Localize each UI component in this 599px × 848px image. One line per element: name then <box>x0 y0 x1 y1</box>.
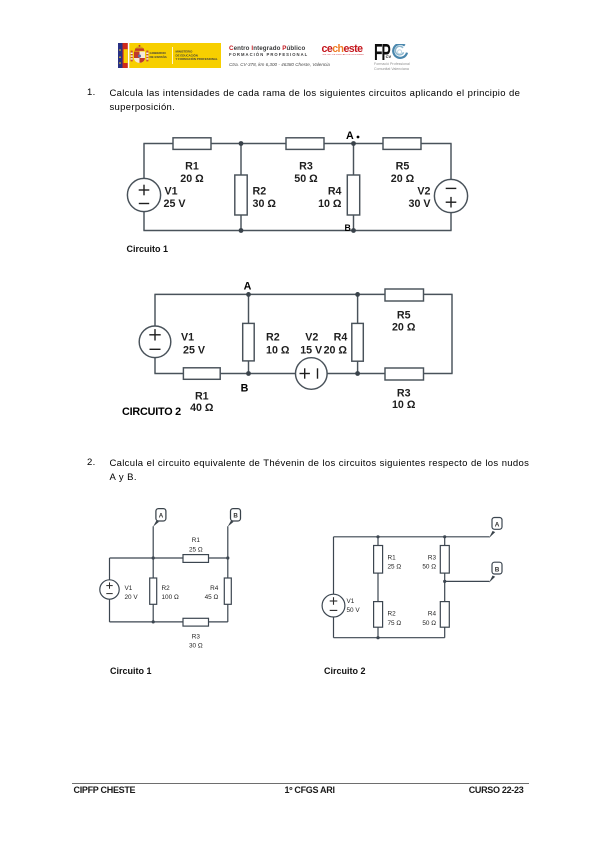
svg-text:R1: R1 <box>388 555 397 562</box>
junction R4 top <box>355 292 360 297</box>
junction top R3 <box>443 535 446 538</box>
svg-text:10 Ω: 10 Ω <box>392 399 416 411</box>
wire branch R1R2 <box>377 537 379 638</box>
centro integrado publico text block <box>229 45 339 67</box>
junction bottom A <box>152 620 155 623</box>
svg-text:R2: R2 <box>388 611 397 618</box>
svg-text:DE ESPAÑA: DE ESPAÑA <box>150 54 168 59</box>
svg-text:R3: R3 <box>428 555 437 562</box>
svg-text:10 Ω: 10 Ω <box>266 345 290 357</box>
svg-text:A: A <box>495 522 500 529</box>
resistor R5 <box>383 138 421 185</box>
resistor R4 <box>324 323 364 361</box>
svg-text:B: B <box>344 223 350 233</box>
node B <box>344 223 355 233</box>
svg-text:R1: R1 <box>195 391 209 403</box>
svg-text:75 Ω: 75 Ω <box>388 620 402 627</box>
wire node B branch <box>227 526 229 622</box>
resistor R3 <box>286 138 324 185</box>
source V2 <box>296 332 328 390</box>
svg-text:100 Ω: 100 Ω <box>162 594 179 601</box>
source V1 <box>127 178 186 211</box>
flag A <box>489 518 502 539</box>
svg-text:V1: V1 <box>125 585 133 592</box>
cecheste logo <box>322 43 370 56</box>
resistor R4 <box>205 578 232 604</box>
svg-text:V1: V1 <box>347 598 355 605</box>
caption circuito 1 <box>110 666 152 676</box>
svg-text:25 Ω: 25 Ω <box>388 564 402 571</box>
resistor R2 <box>150 578 179 604</box>
svg-text:R3: R3 <box>192 633 201 640</box>
svg-text:R2: R2 <box>266 332 280 344</box>
svg-text:25 Ω: 25 Ω <box>189 546 203 553</box>
svg-text:B: B <box>233 512 238 519</box>
svg-text:R3: R3 <box>299 161 313 173</box>
resistor R5 <box>385 289 424 333</box>
svg-text:V2: V2 <box>305 332 318 344</box>
svg-text:V1: V1 <box>181 332 194 344</box>
junction top A <box>152 556 155 559</box>
resistor R3 <box>422 546 449 574</box>
svg-text:R4: R4 <box>428 611 437 618</box>
caption circuito 2 <box>324 666 366 676</box>
wire bottom <box>143 230 451 232</box>
junction bottom R2 <box>376 636 379 639</box>
node B <box>241 371 251 394</box>
junction node B <box>443 580 446 583</box>
wire left <box>154 294 156 373</box>
svg-text:A: A <box>244 281 252 293</box>
wire top <box>110 557 228 559</box>
government of Spain logo <box>116 43 221 68</box>
svg-text:20 Ω: 20 Ω <box>180 173 204 185</box>
wire top <box>154 293 452 295</box>
svg-text:Y FORMACIÓN PROFESIONAL: Y FORMACIÓN PROFESIONAL <box>176 56 218 61</box>
wire node B <box>445 580 490 582</box>
svg-text:B: B <box>241 383 249 395</box>
svg-text:A: A <box>159 512 164 519</box>
caption circuito 1 <box>127 244 169 254</box>
resistor R4 <box>422 602 449 628</box>
svg-text:30 Ω: 30 Ω <box>189 643 203 650</box>
svg-text:30 Ω: 30 Ω <box>253 198 277 210</box>
junction top R1 <box>376 535 379 538</box>
svg-text:R5: R5 <box>396 161 410 173</box>
wire left <box>109 558 111 622</box>
wire R4 branch <box>357 294 359 373</box>
wire left <box>143 144 145 231</box>
caption CIRCUITO 2 <box>122 406 181 418</box>
resistor R1 <box>183 368 220 414</box>
svg-text:45 Ω: 45 Ω <box>205 594 219 601</box>
svg-text:50 V: 50 V <box>347 607 361 614</box>
junction R4 bottom <box>355 371 360 376</box>
junction R2 top <box>239 141 244 146</box>
svg-text:20 Ω: 20 Ω <box>391 173 415 185</box>
wire top <box>143 143 451 145</box>
svg-text:R3: R3 <box>397 387 411 399</box>
svg-text:30 V: 30 V <box>409 198 432 210</box>
resistor R3 <box>385 368 424 411</box>
source V1 <box>322 594 360 617</box>
resistor R4 <box>318 175 360 215</box>
svg-text:20 Ω: 20 Ω <box>324 345 348 357</box>
svg-text:A: A <box>346 130 354 142</box>
resistor R3 <box>183 618 209 649</box>
wire top <box>334 536 490 538</box>
svg-text:20 V: 20 V <box>125 594 139 601</box>
source V2 <box>409 179 468 212</box>
wire bottom <box>154 373 452 375</box>
resistor R2 <box>243 323 290 361</box>
svg-text:V2: V2 <box>417 186 430 198</box>
wire bottom <box>110 621 228 623</box>
svg-text:B: B <box>495 566 500 573</box>
svg-text:50 Ω: 50 Ω <box>294 173 318 185</box>
svg-text:50 Ω: 50 Ω <box>422 564 436 571</box>
wire R4 branch <box>353 144 355 231</box>
junction R2 bottom <box>239 228 244 233</box>
svg-text:R2: R2 <box>253 186 267 198</box>
svg-text:20 Ω: 20 Ω <box>392 321 416 333</box>
svg-text:25 V: 25 V <box>183 345 206 357</box>
svg-text:15 V: 15 V <box>300 345 323 357</box>
svg-text:V1: V1 <box>165 186 178 198</box>
wire right <box>450 144 452 231</box>
node A <box>244 281 252 297</box>
resistor R1 <box>173 138 211 185</box>
resistor R1 <box>183 537 209 562</box>
svg-text:R4: R4 <box>334 332 348 344</box>
source V1 <box>139 326 206 358</box>
node A <box>346 130 359 146</box>
svg-text:10 Ω: 10 Ω <box>318 198 342 210</box>
wire bottom <box>334 637 445 639</box>
wire node A branch <box>152 526 154 622</box>
svg-text:25 V: 25 V <box>164 198 187 210</box>
resistor R1 <box>374 546 402 574</box>
svg-text:40 Ω: 40 Ω <box>190 402 214 414</box>
svg-text:R1: R1 <box>185 161 199 173</box>
wire R2 branch <box>248 294 250 373</box>
flag A <box>153 509 166 527</box>
wire right <box>451 294 453 373</box>
svg-text:R1: R1 <box>192 537 201 544</box>
junction top B <box>226 556 229 559</box>
resistor R2 <box>235 175 277 215</box>
svg-text:R5: R5 <box>397 309 411 321</box>
flag B <box>489 562 502 582</box>
flag B <box>228 509 241 527</box>
svg-text:50 Ω: 50 Ω <box>422 620 436 627</box>
wire left <box>333 537 335 638</box>
wire branch R3R4 <box>444 537 446 638</box>
resistor R2 <box>374 602 402 628</box>
svg-text:R2: R2 <box>162 585 171 592</box>
source V1 <box>100 580 139 601</box>
svg-text:R4: R4 <box>328 186 342 198</box>
svg-text:R4: R4 <box>210 585 219 592</box>
wire R2 branch <box>240 144 242 231</box>
FPcv logo <box>373 41 413 73</box>
